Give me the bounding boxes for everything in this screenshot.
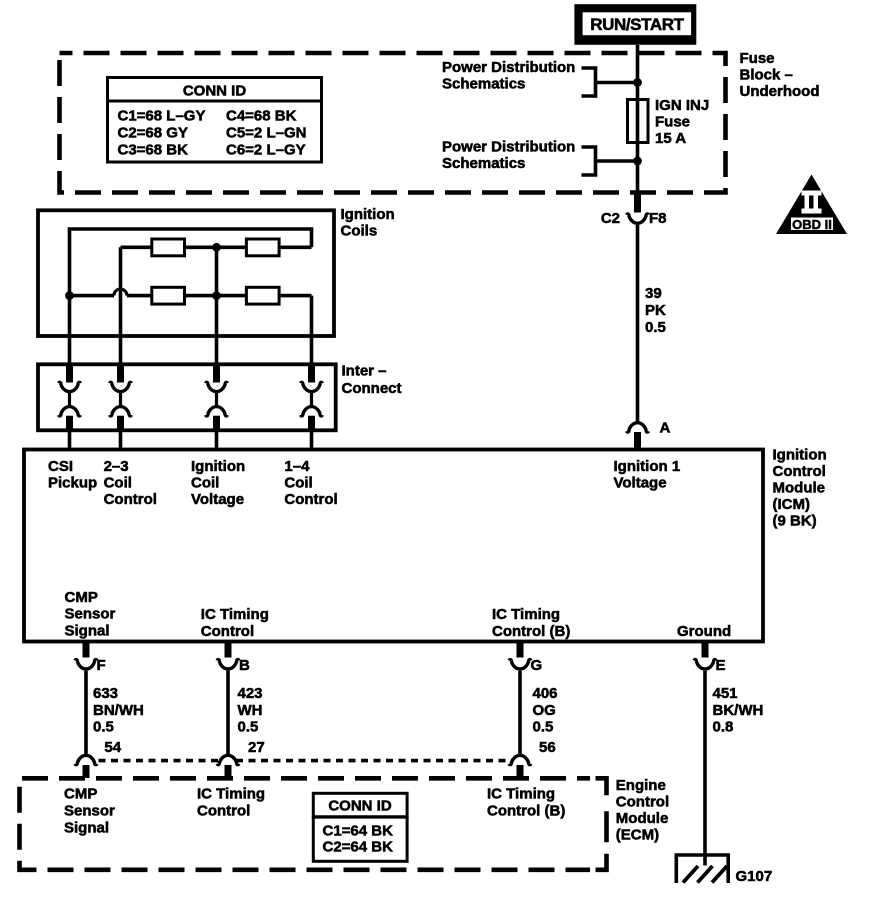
svg-text:Block –: Block – [740, 67, 793, 84]
coil primary 2-3 (row1 left) [152, 239, 185, 256]
svg-text:Power Distribution: Power Distribution [442, 59, 575, 76]
label Ignition Coils [341, 206, 395, 240]
svg-text:G: G [531, 657, 543, 674]
connector pin B [217, 642, 250, 675]
fuse IGN INJ 15A [628, 97, 710, 147]
svg-text:451: 451 [713, 685, 738, 702]
svg-text:Schematics: Schematics [442, 155, 525, 172]
connector 56 (ECM dome) [509, 755, 531, 778]
svg-text:Ground: Ground [677, 623, 731, 640]
connector pin F [75, 642, 106, 675]
svg-text:CONN ID: CONN ID [183, 83, 247, 100]
svg-text:15 A: 15 A [655, 130, 686, 147]
wire interconnect to ICM (2) [119, 431, 123, 451]
label Inter-Connect [342, 362, 402, 397]
svg-text:B: B [239, 657, 250, 674]
ECM connector face dotted line [86, 759, 520, 763]
connector pin E [694, 642, 725, 675]
svg-text:BK/WH: BK/WH [713, 702, 764, 719]
connector table CONN ID (ECM) [312, 793, 409, 861]
svg-text:Module: Module [616, 810, 669, 827]
wire 2-3 coil control vertical (2) [119, 247, 123, 366]
svg-text:Fuse: Fuse [740, 50, 775, 67]
interconnect box [38, 364, 336, 430]
svg-text:C1=64 BK: C1=64 BK [323, 822, 394, 839]
svg-text:CONN ID: CONN ID [328, 798, 392, 815]
junction row2 center [212, 291, 221, 300]
wire junction to fuse [636, 83, 640, 100]
svg-text:C6=2 L–GY: C6=2 L–GY [226, 142, 306, 159]
connector pin G [509, 642, 542, 675]
svg-text:A: A [660, 420, 671, 437]
label Fuse Block - Underhood [740, 50, 820, 100]
svg-text:G107: G107 [736, 868, 773, 885]
coil primary 1-4 (row1 right) [246, 239, 279, 256]
pin label CMP Sensor Signal [65, 589, 116, 640]
coil primary (row2 right) [246, 287, 279, 304]
svg-text:F: F [97, 657, 106, 674]
svg-text:IC Timing: IC Timing [492, 606, 560, 623]
wire interconnect to ICM (3) [215, 431, 219, 451]
pin label CSI Pickup [48, 458, 97, 492]
svg-text:Control: Control [284, 491, 337, 508]
svg-text:Signal: Signal [64, 820, 109, 837]
svg-text:0.8: 0.8 [713, 719, 734, 736]
ignition control module box [24, 450, 763, 642]
off-page bracket (upper) [582, 68, 596, 96]
svg-text:Engine: Engine [616, 777, 666, 794]
svg-text:IC Timing: IC Timing [201, 606, 269, 623]
pin label Ignition Coil Voltage [191, 458, 245, 508]
svg-text:Ignition: Ignition [773, 447, 827, 464]
svg-text:WH: WH [238, 702, 263, 719]
svg-text:Fuse: Fuse [655, 114, 690, 131]
svg-text:0.5: 0.5 [238, 719, 259, 736]
svg-text:Ignition: Ignition [191, 458, 245, 475]
OBD II symbol [776, 175, 847, 235]
wire interconnect to ICM (1) [68, 431, 72, 451]
wire bracket to node [596, 159, 638, 163]
wire bracket to node [596, 81, 638, 85]
svg-text:39: 39 [645, 285, 662, 302]
engine control module dashed box [20, 778, 591, 870]
svg-text:2–3: 2–3 [104, 458, 129, 475]
label Power Distribution Schematics (upper) [442, 59, 575, 93]
svg-text:Coil: Coil [284, 475, 312, 492]
connector 54 (ECM dome) [75, 755, 97, 778]
svg-text:Coils: Coils [341, 223, 378, 240]
svg-text:Signal: Signal [65, 623, 110, 640]
svg-text:0.5: 0.5 [533, 719, 554, 736]
svg-text:C2=68 GY: C2=68 GY [118, 125, 188, 142]
svg-text:Module: Module [773, 480, 826, 497]
pin label IC Timing Control (B) [492, 606, 570, 640]
svg-text:Ignition 1: Ignition 1 [614, 458, 681, 475]
svg-text:OBD II: OBD II [792, 217, 832, 232]
wire 633 BN/WH 0.5 [84, 671, 88, 754]
svg-text:RUN/START: RUN/START [590, 15, 684, 34]
wire CSI pickup vertical (1) [68, 296, 72, 366]
svg-text:Power Distribution: Power Distribution [442, 139, 575, 156]
svg-text:(ECM): (ECM) [616, 827, 659, 844]
svg-text:Control: Control [104, 491, 157, 508]
pin label 1-4 Coil Control [284, 458, 337, 508]
svg-text:Coil: Coil [191, 475, 219, 492]
junction row1 center [212, 243, 221, 252]
svg-text:Control: Control [773, 463, 826, 480]
svg-text:OG: OG [533, 702, 556, 719]
svg-text:Underhood: Underhood [740, 83, 820, 100]
wire coil bus top loop [70, 229, 312, 296]
svg-text:Control (B): Control (B) [492, 623, 570, 640]
svg-text:IC Timing: IC Timing [197, 786, 265, 803]
interconnect pair 3 [206, 366, 228, 431]
interconnect pair 1 [59, 366, 81, 431]
svg-text:E: E [716, 657, 726, 674]
connector 27 (ECM dome) [217, 755, 239, 778]
svg-text:Voltage: Voltage [614, 475, 667, 492]
svg-text:0.5: 0.5 [93, 719, 114, 736]
svg-text:C3=68 BK: C3=68 BK [118, 142, 189, 159]
svg-text:Control: Control [201, 623, 254, 640]
wire hop (no connection) [114, 289, 127, 296]
pin label IC Timing Control [201, 606, 269, 640]
wire 39 PK 0.5 [636, 225, 640, 422]
wire ignition coil voltage vertical (3) [215, 247, 219, 366]
wire 1-4 coil control vertical (4) [310, 296, 314, 366]
label Ignition Control Module (ICM)(9 BK) [773, 447, 827, 530]
wire RUN/START to fuse [636, 45, 640, 83]
wire fuse to C2 [636, 143, 640, 194]
ignition coils box [38, 210, 334, 336]
svg-text:Voltage: Voltage [191, 491, 244, 508]
svg-text:C2=64 BK: C2=64 BK [323, 838, 394, 855]
svg-text:BN/WH: BN/WH [93, 702, 144, 719]
svg-text:(9 BK): (9 BK) [773, 513, 817, 530]
wire coil row 1 [121, 246, 312, 250]
junction [633, 78, 642, 87]
svg-text:CMP: CMP [65, 589, 98, 606]
svg-text:C2: C2 [601, 210, 620, 227]
wire interconnect to ICM (4) [310, 431, 314, 451]
svg-text:Sensor: Sensor [65, 606, 116, 623]
connector table CONN ID (fuse block) [106, 78, 322, 163]
pin label CMP Sensor Signal (ECM) [64, 786, 115, 837]
ground G107 [676, 855, 772, 885]
label Engine Control Module (ECM) [616, 777, 669, 844]
coil primary (row2 left) [152, 287, 185, 304]
wire 451 BK/WH 0.8 [703, 671, 707, 866]
svg-text:PK: PK [645, 302, 666, 319]
label Power Distribution Schematics (lower) [442, 139, 575, 173]
wire 423 WH 0.5 [226, 671, 230, 754]
svg-text:27: 27 [248, 739, 265, 756]
wire 406 OG 0.5 [518, 671, 522, 754]
node RUN/START (hot in run/start) [574, 4, 696, 45]
junction [633, 157, 642, 166]
svg-text:Control: Control [197, 803, 250, 820]
svg-text:Inter –: Inter – [342, 362, 387, 379]
pin label IC Timing Control (ECM) [197, 786, 265, 820]
svg-text:0.5: 0.5 [645, 319, 666, 336]
wire coil row 2 with hop over vertical 2 [70, 294, 312, 298]
pin label 2-3 Coil Control [104, 458, 157, 508]
svg-text:633: 633 [93, 685, 118, 702]
pin label Ignition 1 Voltage [614, 458, 681, 492]
off-page bracket (lower) [582, 147, 596, 175]
svg-text:C1=68 L–GY: C1=68 L–GY [118, 108, 206, 125]
svg-text:IGN INJ: IGN INJ [655, 97, 709, 114]
junction row2 left [65, 291, 74, 300]
pin label IC Timing Control (B) (ECM) [487, 786, 565, 820]
svg-text:Coil: Coil [104, 475, 132, 492]
svg-text:Pickup: Pickup [48, 475, 97, 492]
svg-text:54: 54 [104, 739, 121, 756]
svg-text:1–4: 1–4 [284, 458, 310, 475]
connector A (ICM) female dome over blade [627, 420, 671, 450]
svg-text:IC Timing: IC Timing [487, 786, 555, 803]
svg-text:C4=68 BK: C4=68 BK [226, 108, 297, 125]
svg-text:CMP: CMP [64, 786, 97, 803]
interconnect pair 4 [301, 366, 323, 431]
svg-text:406: 406 [533, 685, 558, 702]
svg-text:Sensor: Sensor [64, 803, 115, 820]
svg-text:56: 56 [539, 739, 556, 756]
svg-text:Ignition: Ignition [341, 206, 395, 223]
svg-text:F8: F8 [649, 210, 667, 227]
svg-text:C5=2 L–GN: C5=2 L–GN [226, 125, 306, 142]
svg-text:Control: Control [616, 794, 669, 811]
interconnect pair 2 [110, 366, 132, 431]
svg-text:423: 423 [238, 685, 263, 702]
fuse block - underhood (dashed box) [60, 53, 726, 193]
svg-text:Connect: Connect [342, 380, 402, 397]
svg-text:Schematics: Schematics [442, 76, 525, 93]
svg-text:Control (B): Control (B) [487, 803, 565, 820]
value label 39 PK 0.5 [645, 285, 666, 336]
svg-text:CSI: CSI [48, 458, 73, 475]
connector C2 pin F8 (male blade into female cup) [601, 194, 667, 227]
svg-text:(ICM): (ICM) [773, 496, 811, 513]
